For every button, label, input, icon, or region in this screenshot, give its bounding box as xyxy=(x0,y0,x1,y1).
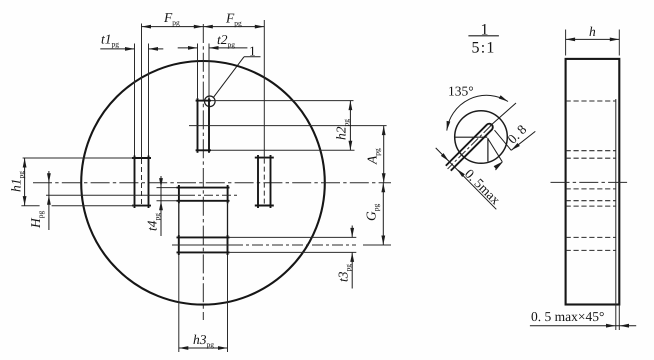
dimension t4 xyxy=(159,176,163,236)
slot S4 axis centreline extended left to H dimension xyxy=(46,194,186,196)
extension line slot S2 top to h2 xyxy=(211,100,354,102)
detail vertical face line xyxy=(487,138,489,162)
dimension t2 xyxy=(178,46,248,50)
svg-text:t2pg: t2pg xyxy=(217,32,235,49)
svg-text:t3pg: t3pg xyxy=(336,264,353,282)
detail horizontal face line xyxy=(455,136,488,138)
svg-text:h1pg: h1pg xyxy=(9,171,26,192)
dimension F right span xyxy=(203,25,264,29)
extension line slot S1 bottom to h1 xyxy=(21,205,39,207)
slot S2 top vertical keyway outline xyxy=(196,98,211,153)
svg-text:Fpg: Fpg xyxy=(163,10,180,27)
dimension h extension lines xyxy=(565,30,567,56)
detail chamfer line lower xyxy=(488,139,502,162)
dimension t3 xyxy=(350,226,354,289)
svg-text:0. 5max: 0. 5max xyxy=(462,166,504,208)
slot S5 bottom horizontal keyway outline xyxy=(177,235,230,255)
svg-text:t1pg: t1pg xyxy=(101,32,119,49)
dimension F left span xyxy=(142,25,204,29)
svg-text:135°: 135° xyxy=(448,84,474,99)
detail keyway slot rounded end xyxy=(445,122,494,171)
slot S3 axis extension line up to F dimension xyxy=(263,20,265,158)
svg-text:Hpg: Hpg xyxy=(28,211,45,230)
dimension 0.8 xyxy=(494,131,536,170)
dimension H xyxy=(47,171,51,230)
dimension h xyxy=(566,38,620,42)
svg-text:h: h xyxy=(589,24,596,39)
slot S1 extension lines up to t1 dimension xyxy=(134,44,136,156)
slot S2 extension lines up to t2 dimension xyxy=(197,44,199,99)
slot S1 axis extension line up to F dimension xyxy=(141,24,143,159)
svg-text:5:1: 5:1 xyxy=(472,40,496,57)
detail chamfer line upper xyxy=(495,130,512,150)
svg-text:0. 8: 0. 8 xyxy=(505,122,530,147)
svg-text:t4pg: t4pg xyxy=(145,213,162,231)
slot S3 right vertical keyway outline xyxy=(255,155,274,208)
fraction line of detail title xyxy=(468,35,499,37)
slot S4 centre horizontal keyway outline xyxy=(177,185,230,203)
extension line slot S1 top to h1 xyxy=(23,157,135,159)
dimension G xyxy=(381,183,385,245)
connector verticals between centre and bottom slots xyxy=(178,203,180,235)
dimension h2 xyxy=(349,101,353,151)
vertical centerline of disc xyxy=(202,24,204,320)
extension line slot S2 bottom to h2 xyxy=(211,149,355,151)
disc outline circle xyxy=(81,61,325,305)
h3 extension lines below bottom slot xyxy=(178,255,180,352)
side view rectangle outline xyxy=(566,59,620,305)
horizontal centerline of disc xyxy=(33,182,391,184)
svg-text:h2pg: h2pg xyxy=(334,119,351,140)
svg-text:Fpg: Fpg xyxy=(225,11,242,28)
extension lines slot S4 edges to t4 xyxy=(157,187,177,189)
svg-text:h3pg: h3pg xyxy=(193,332,214,349)
detail boundary circle xyxy=(455,111,508,164)
detail 135 degree arc with arrows xyxy=(445,95,509,131)
svg-text:1: 1 xyxy=(249,44,256,59)
slot S5 axis centreline extended right to G dimension xyxy=(172,244,232,246)
leader line to detail label 1 xyxy=(214,57,244,97)
side view chamfer extension lines below xyxy=(615,305,617,331)
slot S3 hidden axis dashed xyxy=(263,159,265,205)
side view hidden keyway lines xyxy=(566,101,616,250)
dimension 0.5 max xyxy=(436,148,497,209)
svg-text:0. 5 max×45°: 0. 5 max×45° xyxy=(531,309,604,324)
extension line slot S2 mid to A dimension xyxy=(189,125,387,127)
extension lines slot S5 edges to t3 xyxy=(230,236,357,238)
side view chamfer inner line xyxy=(615,99,617,305)
detail indicator circle on slot S2 corner xyxy=(205,96,216,107)
slot S1 hidden axis dashed xyxy=(141,159,143,205)
svg-text:Apg: Apg xyxy=(365,148,382,165)
dimension t1 xyxy=(100,47,163,51)
dimension 0.5max x 45 chamfer xyxy=(530,324,636,328)
dimension A xyxy=(382,126,386,183)
side view centerline xyxy=(551,181,629,183)
dimension h3 xyxy=(179,346,228,350)
svg-text:Gpg: Gpg xyxy=(364,204,381,222)
detail slot axis extension for 135 angle xyxy=(490,103,516,126)
slot S1 left vertical keyway outline xyxy=(132,156,151,209)
dimension h1 xyxy=(23,158,27,206)
